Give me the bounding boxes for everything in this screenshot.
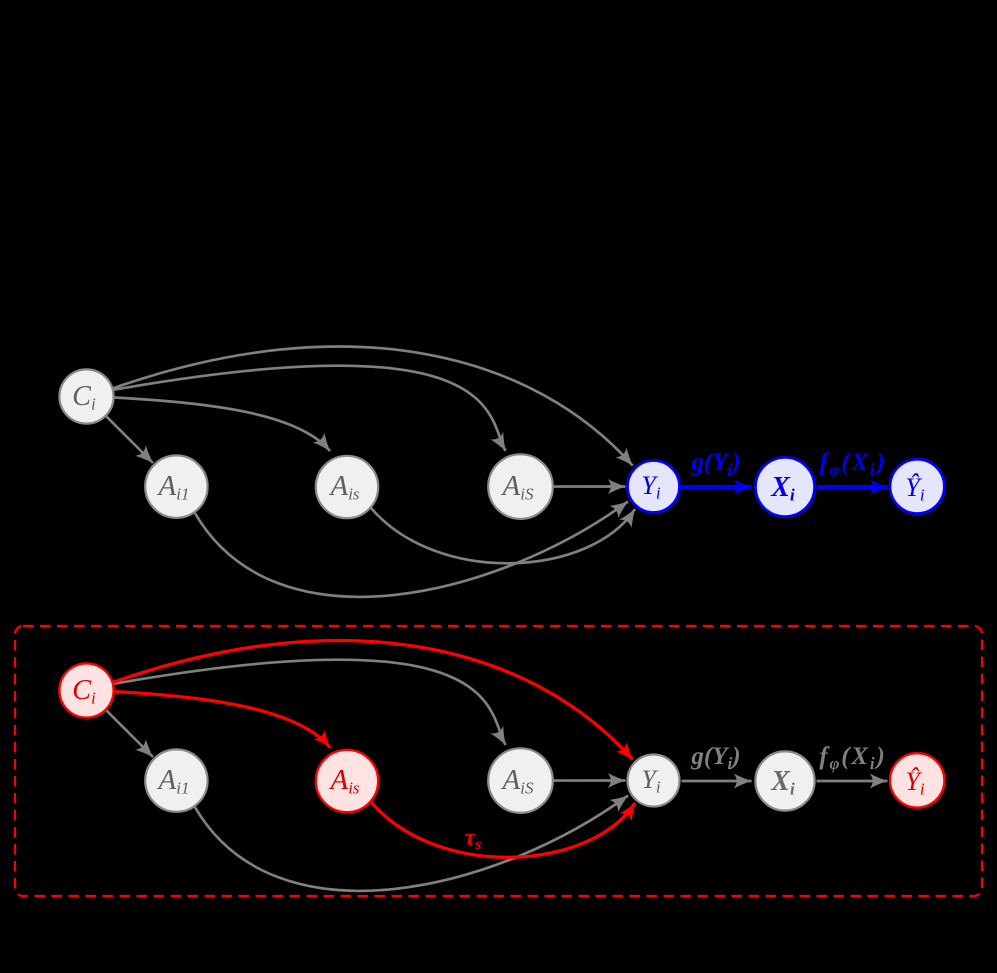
node A_is (bottom, red): [316, 750, 378, 812]
wire A_iS to Y_i (gray straight arrow): [554, 485, 626, 488]
wire A_i1 to Y_i (gray deep curve, bottom): [195, 796, 628, 891]
svg-text:fφ(Xi): fφ(Xi): [819, 743, 886, 773]
wire C_i to A_i1 (gray straight arrow, bottom): [106, 710, 153, 757]
node A_i1 (bottom, gray): [145, 749, 207, 811]
node A_iS (bottom, gray): [488, 748, 553, 813]
red dashed box: [15, 626, 982, 896]
wire C_i to A_iS (gray curve): [113, 366, 506, 451]
wire A_i1 to Y_i (gray deep curve): [195, 502, 628, 597]
node X_i (bottom, gray, bold): [755, 751, 814, 810]
node Y_i (bottom, gray): [628, 755, 680, 807]
wire X_i to Y^_i (gray arrow, bottom): [817, 780, 888, 783]
node X_i (top, blue, bold): [755, 457, 814, 516]
wire A_is to Y_i (red curve, bottom): [371, 802, 635, 857]
wire Y_i to X_i (gray arrow, bottom): [682, 780, 752, 783]
svg-text:g(Yi): g(Yi): [690, 743, 740, 773]
svg-text:g(Yi): g(Yi): [690, 449, 740, 479]
wire Y_i to X_i (blue thick arrow): [682, 485, 752, 489]
node A_iS (top, gray): [488, 454, 553, 519]
wire C_i to Y_i (gray arc): [113, 347, 633, 466]
node A_i1 (top, gray): [145, 455, 207, 517]
node A_is (top, gray): [316, 456, 378, 518]
wire C_i to A_is (gray curve): [114, 398, 331, 452]
wire C_i to A_iS (gray curve, bottom): [113, 660, 506, 745]
wire C_i to A_is (red curve, bottom): [114, 692, 331, 748]
node C_i (top, gray): [59, 369, 113, 423]
wire A_iS to Y_i (gray straight arrow, bottom): [554, 779, 626, 782]
node C_i (bottom, red): [59, 663, 113, 717]
node Y^_i (top, blue): [890, 459, 944, 513]
wire A_is to Y_i (gray curve): [371, 508, 635, 563]
wire X_i to Y^_i (blue thick arrow): [817, 485, 888, 489]
node Y_i (top, blue): [628, 461, 680, 513]
wire C_i to A_i1 (gray straight arrow): [106, 416, 153, 463]
svg-text:fφ(Xi): fφ(Xi): [819, 449, 886, 479]
node Y^_i (bottom, red): [890, 753, 944, 807]
wire C_i to Y_i (red arc, bottom): [113, 641, 633, 760]
